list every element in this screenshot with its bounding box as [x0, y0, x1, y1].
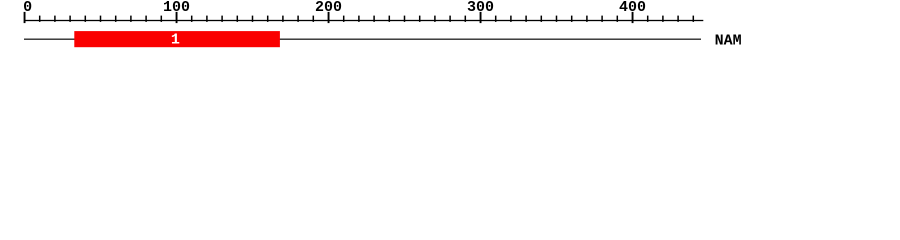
ruler axis line: [24, 20, 703, 21]
minor tick 25: [404, 16, 406, 22]
minor tick 16: [267, 16, 269, 22]
major ticks: [24, 12, 634, 23]
minor tick 41: [647, 16, 649, 22]
minor tick 9: [161, 16, 163, 22]
minor tick 32: [510, 16, 512, 22]
major tick 300: [480, 12, 482, 23]
minor tick 28: [449, 16, 451, 22]
minor tick 36: [571, 16, 573, 22]
minor tick 21: [343, 16, 345, 22]
minor tick 13: [221, 16, 223, 22]
major tick 400: [632, 12, 634, 23]
major tick 100: [176, 12, 178, 23]
minor tick 37: [586, 16, 588, 22]
minor tick 22: [358, 16, 360, 22]
minor tick 23: [373, 16, 375, 22]
minor tick 44: [693, 16, 695, 22]
minor tick 42: [662, 16, 664, 22]
minor tick 5: [100, 16, 102, 22]
svg-text:1: 1: [171, 31, 180, 48]
minor tick 27: [434, 16, 436, 22]
feature bar (red domain): [74, 31, 280, 47]
minor tick 38: [601, 16, 603, 22]
minor tick 2: [54, 16, 56, 22]
minor tick 11: [191, 16, 193, 22]
minor tick 7: [130, 16, 132, 22]
minor ticks: [39, 16, 694, 22]
minor tick 43: [677, 16, 679, 22]
minor tick 19: [313, 16, 315, 22]
minor tick 1: [39, 16, 41, 22]
minor tick 8: [145, 16, 147, 22]
minor tick 29: [465, 16, 467, 22]
ruler scale labels: [23, 0, 646, 16]
minor tick 12: [206, 16, 208, 22]
major tick 200: [328, 12, 330, 23]
minor tick 6: [115, 16, 117, 22]
minor tick 3: [69, 16, 71, 22]
minor tick 33: [525, 16, 527, 22]
minor tick 31: [495, 16, 497, 22]
minor tick 35: [556, 16, 558, 22]
minor tick 18: [297, 16, 299, 22]
svg-text:NAM: NAM: [715, 32, 742, 49]
protein domain track graphic (ruler + feature bar): [0, 0, 900, 58]
track line: [24, 39, 701, 40]
minor tick 39: [617, 16, 619, 22]
minor tick 15: [252, 16, 254, 22]
minor tick 24: [389, 16, 391, 22]
minor tick 34: [541, 16, 543, 22]
minor tick 4: [85, 16, 87, 22]
minor tick 26: [419, 16, 421, 22]
major tick 0: [24, 12, 26, 23]
minor tick 14: [237, 16, 239, 22]
minor tick 17: [282, 16, 284, 22]
